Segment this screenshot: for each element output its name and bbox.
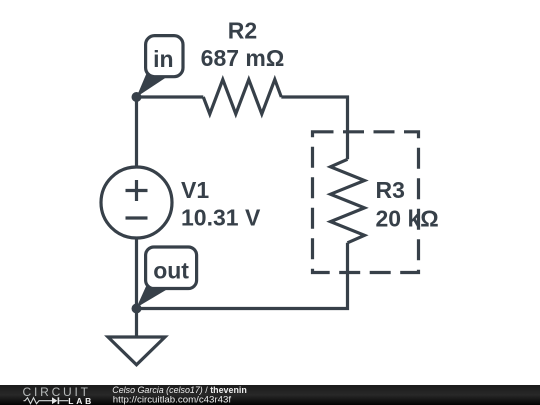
resistor R2 [203, 80, 281, 115]
footer author line [112, 385, 247, 395]
wire from R3 to bottom-right corner and left to node out [137, 243, 348, 309]
footer bar [0, 385, 540, 405]
svg-text:Celso Garcia (celso17) / theve: Celso Garcia (celso17) / thevenin [112, 385, 247, 395]
wire from V1 bottom terminal to node out [135, 237, 138, 309]
svg-text:V1: V1 [181, 177, 209, 203]
svg-text:out: out [153, 258, 189, 284]
ground [108, 309, 165, 365]
voltage source V1 [101, 167, 172, 238]
CircuitLab logo CIRCUIT text [23, 385, 89, 399]
label V1 value [181, 177, 261, 230]
CircuitLab logo resistor zigzag and diode wire [24, 397, 69, 404]
svg-text:in: in [153, 46, 173, 72]
wire from R2 right lead to top-right corner down to R3 [281, 97, 347, 159]
node out (junction dot) [132, 304, 142, 314]
svg-text:LAB: LAB [68, 396, 91, 405]
svg-text:687 mΩ: 687 mΩ [201, 45, 285, 71]
flag label out [137, 247, 197, 308]
wire from node in down to V1 top terminal [135, 97, 138, 168]
resistor R3 [331, 159, 365, 243]
label R2 value [201, 18, 285, 71]
thevenin equivalent dashed box [313, 132, 419, 273]
label R3 value [376, 177, 439, 231]
svg-text:http://circuitlab.com/c43r43f: http://circuitlab.com/c43r43f [113, 395, 232, 405]
CircuitLab logo LAB text [68, 396, 91, 405]
flag label in [137, 36, 184, 97]
node in (junction dot) [132, 92, 142, 102]
wire from node in to R2 left lead [137, 95, 204, 98]
svg-text:10.31 V: 10.31 V [181, 204, 261, 230]
svg-text:R2: R2 [228, 18, 257, 44]
svg-text:R3: R3 [376, 177, 405, 203]
svg-text:20 kΩ: 20 kΩ [376, 205, 439, 231]
footer url line [113, 395, 232, 405]
